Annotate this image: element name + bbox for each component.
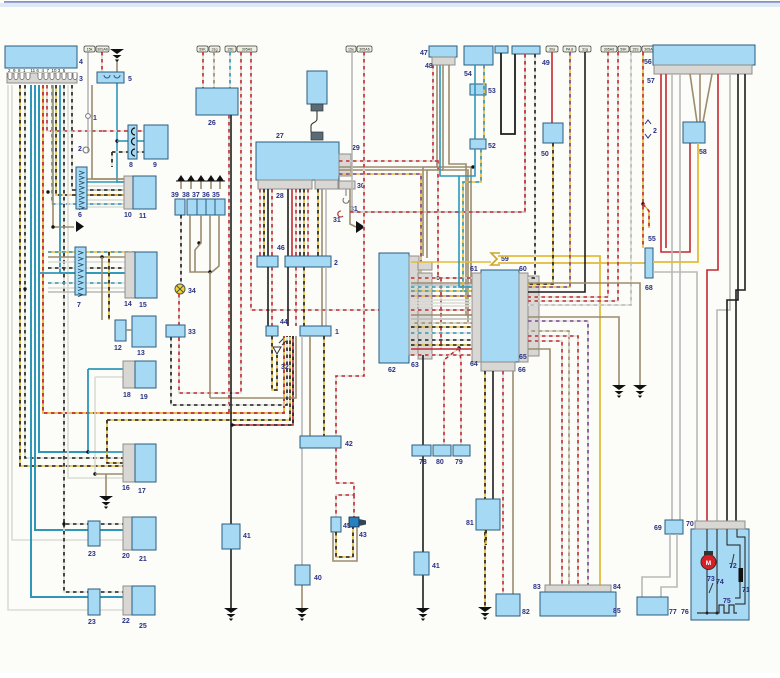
node white node 474 (93, 472, 96, 475)
component 54 (464, 46, 493, 65)
svg-text:2: 2 (334, 260, 338, 267)
wire 52 teal down (459, 149, 475, 287)
updown arrows 2 (645, 120, 651, 138)
wire 27-48 brown link2 (427, 169, 443, 171)
wire 27 purple row (339, 174, 472, 296)
wire 66 brown to 82 (512, 371, 514, 594)
wire red into 5 (101, 52, 103, 72)
wire 76 int e (735, 529, 745, 604)
connector 83-84 (545, 585, 611, 592)
wire fuse gray r (528, 52, 631, 305)
wire row 7-14 gray (48, 291, 135, 293)
pads left of 61 (418, 273, 432, 359)
ground g6 (478, 607, 492, 620)
pump module 76 (691, 529, 749, 620)
ground g7 (612, 385, 626, 398)
slash 72 (731, 554, 734, 568)
component 19 (135, 361, 156, 388)
terminal box (215, 199, 225, 215)
wire row 63-61 y278 (411, 277, 472, 279)
wire 39 black (180, 215, 182, 284)
wire 46-44 a (267, 267, 269, 326)
connector 61 (472, 273, 481, 362)
node circle 1 (86, 114, 91, 119)
wire red link 278-349 (440, 278, 442, 349)
svg-text:15: 15 (139, 302, 147, 309)
wire 28 drop 268 (267, 189, 269, 256)
wire left black-white (25, 85, 123, 458)
wire red 43 stub (353, 495, 355, 517)
wire 33 black down (171, 336, 287, 405)
wire row 6-10 yellowblk (76, 194, 133, 196)
fuse tag PA 8 (563, 46, 576, 52)
wire 2-1 drop 326 (325, 267, 327, 326)
node brown node 7 (100, 255, 103, 258)
wire black row to 9 (128, 151, 144, 153)
wire 32 yellow U (272, 336, 277, 390)
svg-text:305A6: 305A6 (242, 48, 252, 52)
component 15 (135, 252, 157, 298)
svg-text:23: 23 (88, 619, 96, 626)
svg-text:31g: 31g (212, 48, 218, 52)
wire left yellow-black 2 (56, 85, 124, 195)
diode 68 (645, 248, 653, 278)
fuse 80 (433, 445, 451, 456)
svg-text:63: 63 (411, 362, 419, 369)
wire row 63-61 y262 (411, 261, 491, 263)
node 76 dot a (706, 612, 709, 615)
terminal box (206, 199, 216, 215)
node teal node 452 (86, 450, 89, 453)
connector 6 pins (79, 171, 84, 175)
fuse block 1 (300, 326, 331, 336)
wire row 6-10 blackdash (76, 189, 133, 191)
component 56 (653, 45, 755, 65)
wire 59 yellow lower (498, 262, 645, 264)
fuse 44 (266, 326, 278, 336)
terminal box (187, 199, 197, 215)
svg-text:M: M (706, 560, 711, 567)
connector 16 (123, 444, 135, 482)
wire 28 drop 292 (291, 189, 293, 256)
fuse tag 305A (642, 46, 655, 52)
connector 70 (695, 521, 745, 529)
wire teal to conn8 (117, 140, 128, 142)
connector 63 (409, 256, 419, 355)
component 9 (144, 125, 168, 159)
wire left black-dash long (64, 85, 123, 524)
wire 52 yellow down (463, 149, 481, 291)
svg-text:83: 83 (533, 584, 541, 591)
connector 29 (339, 154, 351, 176)
component 85 (540, 592, 616, 616)
wire 48 red (433, 65, 438, 161)
wire 1 gray to 40 (301, 336, 303, 565)
svg-text:8: 8 (129, 162, 133, 169)
lamp 34 (175, 284, 185, 294)
svg-text:62: 62 (388, 367, 396, 374)
svg-text:20: 20 (122, 553, 130, 560)
svg-text:26: 26 (208, 120, 216, 127)
wire 55 yellow-red (642, 52, 644, 248)
component 21 (132, 517, 156, 550)
wire 64 purple right (528, 321, 588, 585)
wire yellow to 12 (108, 252, 110, 320)
connector 60 (519, 273, 528, 362)
wire 57 brown diag b (703, 74, 712, 122)
wire 76 int d (735, 582, 740, 598)
wire teal vert 88 (87, 369, 89, 452)
wire 28 drop 296 (295, 189, 297, 256)
wire left white 2 (12, 85, 123, 540)
svg-text:42: 42 (345, 441, 353, 448)
wire row 7-14 yellowteal (48, 251, 135, 253)
wire 27-48 brown link1 (423, 166, 437, 168)
node brown 38 node (197, 241, 200, 244)
ring connectors 31 (345, 189, 347, 196)
component 13 (132, 316, 156, 347)
wire red node to 61 (438, 277, 472, 279)
connector 14 (125, 252, 135, 298)
wire 66 red to 82 (502, 371, 504, 594)
wire fuse to 26 brown (213, 52, 215, 88)
wire left white 1 (8, 85, 123, 610)
wire 2-1 drop 322 (321, 267, 323, 326)
wire 28 drop 272 (271, 189, 273, 256)
fuse tag 305A6 (237, 46, 257, 52)
wire row 7-14 teal (40, 272, 135, 274)
wire 49 black dash (528, 54, 535, 278)
wire brown gnd to 5 (116, 60, 118, 72)
svg-text:30a: 30a (549, 48, 555, 52)
svg-text:66: 66 (518, 367, 526, 374)
component 11 (133, 176, 156, 209)
wire red X right (459, 348, 461, 445)
wire 26 red down (228, 115, 230, 412)
wire 58 yellow down (653, 143, 698, 262)
wire bus 212 (350, 54, 525, 212)
wire left teal B (35, 85, 123, 530)
wire gray wire 1 (87, 52, 89, 152)
svg-text:38: 38 (182, 192, 190, 199)
svg-text:49: 49 (542, 60, 550, 67)
wire 48 brown c (449, 65, 472, 315)
svg-text:70: 70 (686, 521, 694, 528)
wire row 63-61 y333 (411, 332, 472, 334)
svg-text:2: 2 (653, 128, 657, 135)
fuse tag 30SA6 (96, 46, 109, 52)
wire 42 red down (336, 448, 354, 517)
wire 55 branch (643, 204, 649, 228)
wire 37 brown (195, 215, 201, 272)
component 52 (470, 139, 486, 149)
wire row 63-61 y340 (411, 339, 472, 341)
connector 69 (665, 520, 683, 534)
switch 74 (709, 583, 713, 593)
wire 28 drop 264 (263, 189, 265, 256)
svg-text:48: 48 (425, 63, 433, 70)
wire row 63-61 y291 (411, 290, 472, 292)
ground g8 (633, 385, 647, 398)
terminal box (197, 199, 207, 215)
connector arrow right 31 (356, 221, 365, 233)
svg-text:54: 54 (464, 71, 472, 78)
wire 46-44 b (271, 267, 273, 326)
wire left black-dash short (72, 85, 124, 190)
connector 30 (339, 181, 355, 189)
connector strip 3 (7, 73, 77, 83)
wire row 63-61 y315 (411, 314, 472, 316)
connector 48 (432, 57, 455, 65)
svg-text:37: 37 (192, 192, 200, 199)
node brown 36 node (208, 270, 211, 273)
wire row 6-10 white3 (87, 206, 133, 208)
component 12 (115, 320, 126, 341)
svg-text:71: 71 (742, 587, 750, 594)
wire 28 drop 300 (299, 189, 301, 256)
svg-text:58: 58 (699, 149, 707, 156)
wire fuse red to 42 (336, 52, 364, 436)
svg-text:47: 47 (420, 50, 428, 57)
connector 57 (654, 65, 752, 74)
svg-text:1: 1 (335, 329, 339, 336)
wire 1 brown 42 (309, 336, 311, 436)
svg-text:59K: 59K (620, 48, 627, 52)
wire 28 drop 304 (303, 189, 305, 256)
svg-text:7: 7 (77, 302, 81, 309)
svg-text:12: 12 (114, 345, 122, 352)
fuse tag 31g (209, 46, 220, 52)
wire teal from 5 (117, 83, 124, 182)
node teal junction (115, 139, 118, 142)
wire 26 black down (230, 115, 232, 608)
svg-text:305A6: 305A6 (604, 48, 614, 52)
svg-text:28: 28 (276, 193, 284, 200)
svg-text:36: 36 (202, 192, 210, 199)
fuse block 2 (285, 256, 331, 267)
svg-text:56: 56 (644, 59, 652, 66)
wire 28 drop 326 (325, 189, 327, 256)
wire 27 brown row2 (339, 170, 427, 258)
ground g4 under 40 (295, 608, 309, 621)
component 49b (512, 46, 540, 54)
wire left white 3 (68, 85, 123, 478)
wire 41b black gnd (422, 575, 424, 608)
wire 28 drop 322 (321, 189, 323, 256)
svg-text:73: 73 (707, 576, 715, 583)
wire left brown to 10 (92, 85, 124, 179)
wire 45 yellow U (336, 527, 353, 557)
wire black-dash conn8 (112, 151, 128, 153)
ground g1 top (110, 49, 124, 62)
fuse tag 15e (346, 46, 356, 52)
wire left gray brown-arrow (53, 85, 74, 227)
component 17 (135, 444, 156, 482)
fuse 41b (414, 552, 429, 575)
wire fuse to 26 red (202, 52, 204, 88)
connector 10 (124, 176, 133, 209)
wire row 63-61 y345 (411, 344, 472, 346)
node gray node 192 (46, 190, 49, 193)
svg-text:2: 2 (78, 146, 82, 153)
svg-text:53: 53 (488, 88, 496, 95)
wire 59 yellow flag (491, 253, 500, 265)
wire 81 yellow gnd (485, 530, 487, 545)
component 33 (166, 325, 185, 337)
wire 2-1 drop 304 (303, 267, 305, 326)
svg-text:32: 32 (281, 364, 289, 371)
wire fuse red r1 (528, 52, 608, 297)
wire row 63-61 y300 (411, 299, 472, 301)
svg-text:23: 23 (88, 551, 96, 558)
wire 57 brown diag a (690, 74, 697, 122)
svg-text:50: 50 (541, 151, 549, 158)
wire 63 black down (422, 355, 424, 552)
svg-text:16: 16 (122, 485, 130, 492)
svg-text:43: 43 (359, 532, 367, 539)
svg-text:39: 39 (171, 192, 179, 199)
wire row 63-61 y327 (411, 326, 472, 328)
component 53 (470, 84, 486, 95)
terminal box (175, 199, 185, 215)
wire redblack bus 425 (232, 336, 293, 425)
wire 57 red a2 (665, 74, 667, 248)
svg-text:2 9 8 1 11 6 4 7 10 3: 2 9 8 1 11 6 4 7 10 3 5 (8, 68, 66, 73)
resistor 58 (683, 122, 705, 143)
wire red row to 9 (103, 130, 144, 132)
wire 28 drop 308 (307, 189, 309, 256)
wire teal to 18 (88, 368, 123, 370)
wire 48 brown a (437, 65, 472, 283)
svg-text:80: 80 (436, 459, 444, 466)
wire row 63-61 y323 (411, 322, 472, 324)
wire row 6-10 tealdash (76, 203, 133, 205)
svg-text:69: 69 (654, 525, 662, 532)
component 77 (637, 597, 668, 615)
svg-text:81: 81 (466, 520, 474, 527)
wire 64 gray right (528, 331, 569, 585)
component 49a (495, 46, 508, 53)
svg-text:6: 6 (78, 212, 82, 219)
wire 64 red right b (528, 336, 578, 585)
svg-text:17: 17 (138, 488, 146, 495)
injector body (307, 71, 327, 104)
wire 2-1 drop 296 (295, 267, 297, 326)
connector 28b (315, 180, 338, 189)
svg-text:64: 64 (470, 361, 478, 368)
top rule (0, 3, 780, 7)
strip 3 pin cups (8, 73, 12, 80)
wire gray fuse drop (351, 52, 353, 212)
svg-text:59K: 59K (199, 48, 206, 52)
ground g5 under 41b (416, 608, 430, 621)
svg-text:34: 34 (188, 288, 196, 295)
connector 8 hooks (132, 128, 136, 135)
wire yellowblack elbow drop (107, 420, 123, 463)
wire left black-dash long b (64, 524, 123, 592)
node arrow brown node (51, 225, 54, 228)
wire row 6-10 brown (87, 178, 133, 180)
fuse tag 15E (225, 46, 236, 52)
node node 349 (457, 346, 460, 349)
wire 64 brown gnd right (528, 317, 619, 385)
component 40 (295, 565, 310, 585)
wire 54-53-52 teal (474, 65, 476, 139)
component 82 (496, 594, 520, 616)
svg-text:77: 77 (669, 609, 677, 616)
wire 27 brown row1 (339, 167, 423, 256)
svg-text:14: 14 (124, 301, 132, 308)
wire left teal A (31, 85, 123, 597)
svg-text:41: 41 (432, 563, 440, 570)
wire row 63-61 y303 (411, 302, 472, 304)
wire 76 int a (706, 529, 708, 551)
pads right of 63 lower (418, 262, 432, 270)
pads 60 right (528, 276, 539, 356)
wire teal row to 9 (128, 140, 144, 142)
svg-text:15e: 15e (348, 48, 354, 52)
svg-text:55: 55 (648, 236, 656, 243)
wire 57 black a (727, 74, 738, 521)
ground g3 under 41a (224, 608, 238, 621)
svg-text:72: 72 (729, 563, 737, 570)
wire 57 red a (661, 74, 690, 252)
wire row 6-10 teal (87, 181, 133, 183)
connector 66 (481, 362, 515, 371)
fuse tag 15S (630, 46, 641, 52)
svg-text:15k: 15k (87, 48, 93, 52)
wire row 7-14 blackdash (48, 267, 135, 269)
svg-text:75: 75 (723, 598, 731, 605)
wire 28 drop 260 (259, 189, 261, 256)
wire 54 yellow-teal (483, 65, 485, 139)
wire 36 brown (209, 215, 211, 272)
connector arrow right (76, 221, 84, 232)
svg-text:31g: 31g (582, 48, 588, 52)
wire left red-yellow bus (43, 85, 284, 413)
wire 64 brown gnd right2 (528, 283, 640, 385)
connector 22 (123, 586, 132, 615)
component 25 (132, 586, 155, 615)
ECU 27 (256, 142, 339, 180)
component 47 (429, 46, 457, 57)
wire row 63-61 y355 (411, 354, 472, 356)
wire 57 gray b (679, 74, 681, 520)
node black bus node (230, 423, 233, 426)
svg-text:30SA6: 30SA6 (97, 48, 108, 52)
svg-text:21: 21 (139, 556, 147, 563)
ECU 64 (481, 270, 519, 362)
svg-text:65: 65 (519, 354, 527, 361)
svg-text:78: 78 (419, 459, 427, 466)
svg-text:305A: 305A (644, 48, 653, 52)
wire left red-white to 8 (47, 85, 103, 131)
wire 57 gray c (717, 74, 730, 521)
wire row 7-14 white2 (48, 287, 135, 289)
svg-text:10: 10 (124, 212, 132, 219)
wire fuse red long a (179, 52, 241, 393)
svg-text:27: 27 (276, 133, 284, 140)
node brown node 47x (471, 165, 474, 168)
wire 50 yellow-black (528, 143, 553, 284)
wire 69 gray b (661, 534, 677, 597)
svg-text:4: 4 (79, 59, 83, 66)
svg-text:29: 29 (352, 145, 360, 152)
wire black-dash conn8 drop (111, 152, 113, 167)
svg-text:76: 76 (681, 609, 689, 616)
component 4 main switch (5, 46, 77, 68)
svg-text:11: 11 (139, 213, 147, 220)
